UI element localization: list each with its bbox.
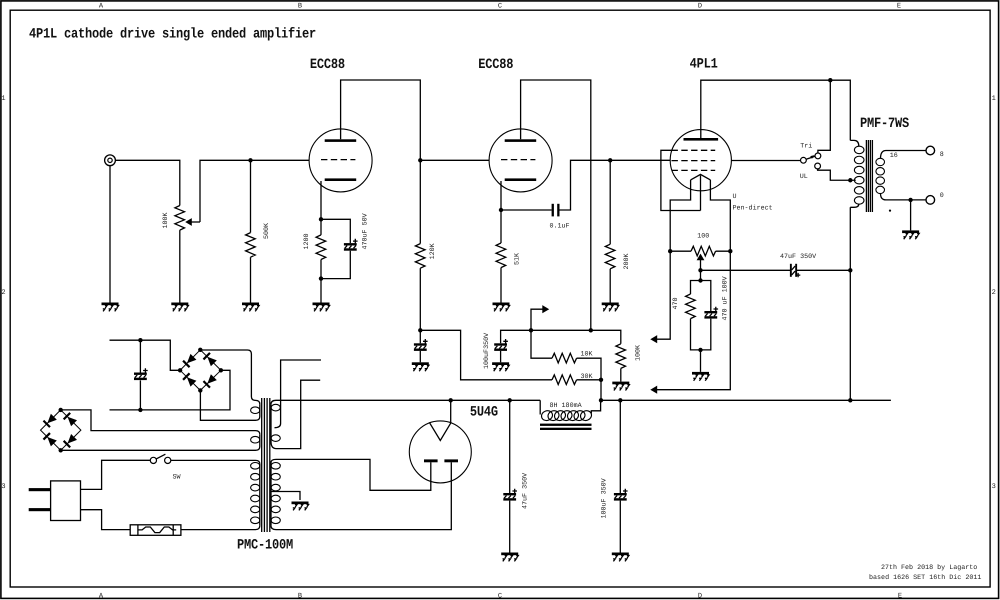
node V1 cathode top [319,217,323,221]
resistor R6 470 [686,294,696,319]
wire UL tap branch [818,169,856,180]
switch UL contact circle [815,163,821,169]
node 500K junction [248,158,252,162]
T1 core laminations [866,140,872,212]
svg-text:2: 2 [1,289,5,297]
pot wiper arrow [185,218,200,226]
V1 cathode bar [325,178,357,181]
svg-text:Pen-direct: Pen-direct [733,204,773,212]
wire wiper to grid line [200,160,309,222]
svg-text:C: C [498,593,502,600]
wire C7 ground stem [509,501,511,553]
wire C5 ground stem [419,351,421,362]
wire heater cap stem [139,340,141,410]
wire RC bottom branches [691,319,711,350]
wire cap branch bottom [321,251,350,279]
wire secondary ground stem [910,200,912,231]
V3 plate bar [684,138,719,141]
svg-text:4P1L cathode drive single ende: 4P1L cathode drive single ended amplifie… [29,26,316,43]
choke L1 8H 180mA loops [540,409,593,422]
potentiometer VR1 100K body [175,206,185,231]
wire cathode to coupling cap [501,209,552,211]
V1 grid dashed [321,159,355,161]
wire ultrapath line [701,269,851,271]
wire B+ rail left [276,399,540,401]
node RC top [698,278,702,282]
svg-text:B: B [298,3,302,11]
T2 winding L2 lead out to bridge2 bottom [61,447,260,451]
T2 winding L1 spine [259,404,261,416]
V3 grid g1 dashed [672,169,716,171]
node heater cap top [138,338,142,342]
svg-text:120K: 120K [429,243,437,259]
T2 winding R1 loops [271,404,280,441]
wire BR1 right vertex stub [110,370,231,410]
node V2 cathode [499,208,503,212]
node RC bottom [698,348,702,352]
T2 winding L1 lead out to bridge1 bottom [200,390,259,420]
node rail 47uF junction [508,398,512,402]
fuse F1 [130,525,181,536]
plug prong lower [29,508,51,511]
node BR2 top [59,408,63,412]
wire V3 plate to top rail [701,80,851,140]
ground C7 [501,553,518,562]
svg-text:10K: 10K [581,351,593,359]
T1 primary loops [854,146,864,204]
resistor R8 10K [552,353,577,363]
V3 grid g2 dashed [672,160,716,162]
svg-text:0: 0 [940,192,944,200]
svg-text:PMC-100M: PMC-100M [237,537,293,554]
triode V1 ECC88 envelope [309,129,372,192]
ground 51K [493,303,510,312]
svg-text:U: U [733,193,737,201]
hum pot wiper arrow [697,254,705,281]
wire coupling cap to 4PL1 grid [560,160,671,210]
bridge rectifier BR2 diamond [41,410,81,450]
T2 primary L3 lead in from switch [171,460,260,464]
arrow connector right-pointing [542,305,549,313]
wire RC ground stem [700,350,702,372]
wire jack ground stem [109,166,111,303]
wire 500K ground stem [250,257,252,302]
switch Tri contact circle [815,153,821,159]
ground HV center tap [292,502,309,511]
resistor R5 200K [605,244,615,269]
wire jack to pot top [115,160,179,205]
wire 100uF cap stem [619,400,621,493]
BR2 diode bottom-left [43,432,57,446]
node wiper ultrapath [698,268,702,272]
svg-text:E: E [897,3,901,11]
svg-text:B: B [298,593,302,600]
wire 200K top lead [609,160,611,244]
V1 plate bar [325,139,357,142]
arrow connector lower left-pointing [650,386,657,394]
wire g2 to switch pole [731,160,800,162]
wire hum pot leads [670,250,730,252]
node arrow connector junction [529,328,533,332]
switch blade [806,155,815,159]
svg-text:3: 3 [1,483,5,491]
node 200K junction [608,158,612,162]
ground 100K [612,382,629,391]
resistor R3 1200 [316,235,326,260]
resistor R2 120K [415,244,425,269]
node hum pot right [728,249,732,253]
wire 51K ground stem [500,268,502,303]
choke L1 right step [591,400,600,413]
wire hum pot right to arrow [657,251,731,390]
capacitor C8 100uF 350V [614,489,628,501]
capacitor C4 47uF 350V ultrapath [790,264,800,278]
output terminal 0 [926,196,935,205]
wire hum pot left to arrow [657,251,670,339]
svg-text:3: 3 [992,483,996,491]
choke L1 core bars [540,424,592,430]
wire V2 plate to B+ node [521,80,591,330]
T2 winding L2 loop [251,436,260,443]
node stage1 decoupling [418,328,422,332]
svg-text:100uF350V: 100uF350V [483,333,491,369]
svg-text:D: D [698,593,702,600]
node rail choke junction [599,398,603,402]
capacitor C2 0.1uF [552,204,560,217]
input jack J1 [105,155,116,166]
svg-text:ECC88: ECC88 [310,56,345,73]
wire direct coupling V1 to V2 grid [420,159,489,161]
wire V4 right plate to HV winding bottom [276,462,451,529]
T1 secondary lead bottom [881,194,926,200]
rectifier V4 5U4G envelope [409,421,471,483]
node hum pot left [668,249,672,253]
node heater cap bottom [138,408,142,412]
svg-text:1: 1 [1,95,5,103]
BR1 diode top-left [182,354,196,368]
T2 primary L3 lead out to fuse [181,526,260,530]
T2 winding L2 spine [259,434,261,446]
ground 200K [602,303,619,312]
capacitor C6 100uF350V [494,339,508,351]
svg-text:47uF 350V: 47uF 350V [522,473,530,509]
output transformer T1 primary lead top [850,140,859,146]
ground pot [171,303,188,312]
switch SW pole circle [150,457,156,463]
ground jack [102,303,119,312]
T2 winding R1 lead to rail [271,400,276,404]
ground C5 [412,362,429,371]
svg-text:A: A [99,3,104,11]
wire stage1 node to cap [419,330,421,343]
capacitor C5 stage1 decoupling [414,339,428,351]
power transformer T2 core laminations [262,398,270,532]
wire 120K bottom to B+ node [419,268,421,330]
V2 grid dashed [501,159,535,161]
choke L1 left step [539,400,541,414]
svg-text:500K: 500K [263,223,271,239]
node ultrapath B+ [848,268,852,272]
V4 right plate bar [444,459,458,462]
wire V4 filament to rail [450,400,452,423]
node BR2 bottom [59,448,63,452]
BR1 diode top-right [203,352,217,366]
V3 grid g3 dashed [672,149,716,151]
T2 winding L1 lead in from bridge1 [200,350,259,404]
svg-text:100K: 100K [635,345,643,361]
wire 100K ground stem [620,368,622,381]
wire plug live to switch [81,460,151,489]
wire cap branch top [321,219,350,243]
V3 filament [691,174,711,180]
svg-text:Tri: Tri [800,142,812,150]
wire 500K top lead [250,160,252,232]
BR1 diode bottom-right [203,374,217,388]
triode V2 ECC88 envelope [489,129,552,192]
T2 winding R1 spine [270,404,272,441]
svg-text:based 1626 SET 16th Dic 2011: based 1626 SET 16th Dic 2011 [869,574,981,582]
svg-text:ECC88: ECC88 [478,56,513,73]
bridge rectifier BR1 diamond [180,350,221,391]
wire C8 ground stem [619,501,621,553]
wire 1200 bottom [320,260,322,303]
capacitor C9 heater filter [134,368,148,380]
wire V2 cathode lead [500,181,502,210]
T1 secondary lead top [881,151,926,159]
wire V3 filament right leg [710,180,730,251]
node 30K junction [599,378,603,382]
ground C6 [492,362,509,371]
T2 HV winding R2 spine [270,463,272,526]
ground V1 cathode [313,303,330,312]
svg-text:SW: SW [173,473,182,481]
pentode V3 4PL1 envelope [670,130,731,191]
T2 primary L3 loops [251,463,260,524]
svg-text:PMF-7WS: PMF-7WS [860,115,909,132]
svg-text:470 uF 100V: 470 uF 100V [722,276,730,320]
svg-text:100K: 100K [162,212,170,228]
stray dot mark [889,210,891,212]
svg-text:1200: 1200 [303,233,311,249]
wire V1 cathode lead [320,181,322,219]
ground 500K [242,303,259,312]
resistor R7 30K [552,375,577,385]
node BR1 left [178,368,182,372]
svg-text:2: 2 [992,289,996,297]
wire pot ground stem [179,230,181,302]
T2 HV winding R2 lead top [271,459,276,462]
svg-text:1: 1 [992,95,996,103]
svg-text:8: 8 [940,151,944,159]
node rail 100uF junction [618,398,622,402]
svg-text:8H 180mA: 8H 180mA [550,402,583,410]
wire Tri contact branch [818,80,830,153]
V4 left plate bar [424,459,438,462]
switch SW contact circle [165,457,171,463]
svg-text:200K: 200K [623,253,631,269]
switch pole circle [801,157,807,163]
wire 10K feed [531,330,552,358]
potentiometer VR2 100 body [691,246,716,256]
V2 cathode bar [505,178,537,181]
svg-text:100: 100 [697,232,709,240]
wire plug neutral to fuse [81,510,131,530]
capacitor C1 470uF 50V [344,239,358,251]
resistor R1 500K [246,233,256,258]
wire 10K to vertical [577,358,601,400]
wire V4 left plate to HV winding [276,459,431,490]
switch SW blade [156,454,165,459]
svg-text:16: 16 [890,152,898,160]
wire cathode to 1200 [320,219,322,235]
wire BR1 left vertex stub [110,340,181,370]
wire g3 tie to filament [661,150,701,210]
svg-text:47uF 350V: 47uF 350V [780,253,816,261]
wire V1 plate to 120K node [341,80,421,244]
svg-text:27th Feb 2018 by Lagarto: 27th Feb 2018 by Lagarto [881,564,977,572]
svg-text:D: D [698,3,702,11]
node BR1 bottom [198,388,202,392]
T2 HV winding R2 lead bottom [271,526,276,530]
node rail rectifier junction [449,398,453,402]
T2 winding R1 lead out stub lower [271,380,320,448]
wire C6 ground stem [500,351,502,362]
wire V3 filament left leg [670,180,690,251]
T2 HV winding R2 loops [271,463,280,524]
node BR1 top [198,348,202,352]
wire stage1 node to 30K [420,330,552,380]
BR2 diode bottom-right [63,434,77,448]
V3 filament center tap [700,175,702,210]
ground RC [692,372,709,381]
T2 winding L1 loop [251,407,260,414]
wire stage2 B+ node line [501,330,621,344]
node ECC88 plate supply junction [589,328,593,332]
T2 primary L3 spine [259,464,261,526]
node V1 plate coupling [418,158,422,162]
wire cathode to 51K [500,210,502,243]
V2 plate bar [505,139,537,142]
plug prong upper [29,488,51,491]
resistor R9 100K [616,344,626,369]
wire RC top branches [691,281,711,312]
wire B+ rail right [601,399,891,401]
resistor R4 51K [496,243,506,268]
capacitor C7 47uF 350V [503,489,517,501]
node BR1 right [219,368,223,372]
T2 winding R1 tap stub upper [275,360,322,428]
svg-text:5U4G: 5U4G [470,404,498,421]
T2 winding L2 lead in from bridge2 [61,410,260,434]
node rail output transformer junction [848,398,852,402]
T1 primary lead bottom [850,204,859,207]
svg-text:C: C [498,3,502,11]
wire T1 primary bottom to B+ rail [849,207,851,400]
svg-text:E: E [898,593,902,600]
svg-text:51K: 51K [514,253,522,265]
svg-text:0.1uF: 0.1uF [550,222,570,230]
BR2 diode top-left [43,413,57,427]
BR1 diode bottom-left [182,373,196,387]
arrow connector upper left-pointing [650,335,657,343]
V4 filament [429,422,451,440]
wire 47uF cap stem [509,400,511,493]
svg-text:470: 470 [672,297,680,309]
node plate/Tri junction [828,78,832,82]
ground C8 [612,553,629,562]
node V1 cathode bottom [319,276,323,280]
wire 200K ground stem [609,269,611,303]
node UL tap [848,178,852,182]
T1 secondary loops [876,158,885,193]
wire arrow connector stem [531,309,543,330]
capacitor C3 470uF 100V [704,307,718,319]
node secondary ground junction [908,198,912,202]
svg-text:100uF 350V: 100uF 350V [601,478,609,518]
BR2 diode top-right [63,412,77,426]
svg-text:4PL1: 4PL1 [690,56,718,73]
wire 30K to vertical [577,379,601,381]
T2 HV center tap [271,492,300,501]
svg-text:470uF 50V: 470uF 50V [362,213,370,249]
mains plug P1 body [51,481,81,521]
svg-text:UL: UL [800,173,808,181]
output terminal 8 [926,146,935,155]
ground secondary [902,230,919,239]
